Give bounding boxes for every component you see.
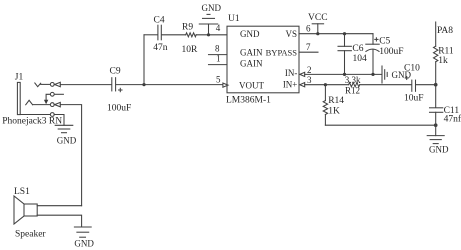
C5 plus sign — [375, 38, 378, 41]
wire R14 bottom to ground node — [325, 124, 435, 126]
node junction C6 bottom — [343, 73, 346, 76]
svg-text:1k: 1k — [438, 56, 448, 66]
wire R9 to pin 4 — [196, 34, 227, 36]
svg-text:3: 3 — [307, 75, 312, 85]
svg-text:VCC: VCC — [308, 13, 328, 23]
jack ring contact circle — [50, 92, 54, 96]
jack tip spring contact — [35, 83, 41, 87]
svg-text:PA8: PA8 — [437, 26, 453, 36]
svg-text:C9: C9 — [110, 66, 121, 76]
ground under jack — [55, 125, 73, 132]
resistor R11 — [434, 46, 438, 62]
svg-text:C10: C10 — [404, 64, 420, 74]
ground above pin 4 (inverted) — [199, 14, 217, 34]
svg-text:IN+: IN+ — [283, 80, 298, 90]
capacitor C5 plates — [366, 44, 379, 51]
jack tip contact circle — [50, 83, 54, 87]
svg-text:IN-: IN- — [285, 68, 298, 78]
wire C11 to ground — [435, 112, 437, 135]
resistor R12 — [349, 83, 360, 87]
svg-text:Phonejack3 RN: Phonejack3 RN — [2, 116, 62, 126]
capacitor C11 plates — [430, 108, 443, 113]
svg-text:R9: R9 — [182, 23, 193, 33]
svg-text:LS1: LS1 — [14, 187, 30, 197]
svg-text:100uF: 100uF — [379, 47, 403, 57]
svg-text:7: 7 — [306, 42, 311, 52]
jack tip open arrow — [55, 82, 61, 86]
wire sleeve to ground — [54, 115, 64, 126]
svg-text:2: 2 — [307, 65, 312, 75]
svg-text:10R: 10R — [182, 45, 199, 55]
wire C10 to node — [416, 84, 436, 86]
connector J1 body — [17, 82, 20, 114]
wire C6 bottom stem — [344, 51, 346, 75]
jack switch open arrow — [55, 102, 61, 106]
svg-text:R14: R14 — [328, 96, 344, 106]
pin 1 stub wire — [209, 64, 228, 66]
wire to C4 — [144, 34, 157, 36]
pin 8 stub wire — [209, 54, 228, 56]
svg-text:3.3k: 3.3k — [345, 75, 361, 85]
VCC power symbol — [312, 24, 323, 34]
svg-text:U1: U1 — [228, 14, 240, 24]
C9 plus sign — [119, 88, 122, 91]
wire IN- rail — [305, 73, 382, 75]
wire C5 bottom stem — [372, 49, 374, 74]
svg-text:VS: VS — [285, 29, 297, 39]
svg-text:8: 8 — [215, 43, 220, 53]
pin 2 input open arrow — [300, 72, 305, 76]
node junction at feedback tap — [142, 83, 145, 86]
jack sleeve contact circle — [50, 113, 54, 117]
svg-text:47n: 47n — [153, 43, 168, 53]
svg-text:LM386M-1: LM386M-1 — [226, 96, 271, 106]
wire R11 to node — [435, 62, 437, 108]
wire IN+ to R12 — [305, 84, 349, 86]
jack switch spring contact — [26, 100, 33, 105]
resistor R9 — [186, 33, 197, 37]
node junction R14 ground — [434, 123, 438, 127]
sideways ground on IN- rail — [382, 66, 387, 83]
loudspeaker LS1 — [14, 196, 37, 224]
svg-text:100uF: 100uF — [107, 104, 131, 114]
jack switch actuation arrow — [44, 100, 48, 105]
wire switch spring to circle — [33, 104, 51, 106]
resistor R14 — [323, 85, 327, 126]
svg-text:GND: GND — [74, 238, 94, 248]
pin 7 stub wire — [299, 51, 318, 53]
svg-text:4: 4 — [216, 23, 221, 33]
svg-text:VOUT: VOUT — [239, 81, 264, 91]
svg-text:6: 6 — [306, 23, 311, 33]
svg-text:10uF: 10uF — [404, 94, 424, 104]
C10 plus sign — [405, 77, 408, 80]
pin 5 output open arrow — [223, 83, 228, 87]
ground speaker — [74, 227, 91, 237]
svg-text:Speaker: Speaker — [15, 230, 46, 240]
svg-text:BYPASS: BYPASS — [266, 48, 298, 58]
svg-text:GAIN: GAIN — [240, 48, 263, 58]
node junction VCC — [316, 32, 319, 35]
pin 3 input open arrow — [300, 83, 305, 87]
svg-text:C5: C5 — [379, 37, 390, 47]
wire jack switch to speaker drop — [60, 105, 81, 206]
svg-text:5: 5 — [216, 75, 221, 85]
node junction PA8 net — [434, 83, 438, 87]
capacitor C9 plates — [112, 78, 116, 91]
svg-text:C4: C4 — [154, 15, 165, 25]
node junction under ground — [207, 33, 210, 36]
svg-text:GND: GND — [57, 135, 77, 145]
wire C5 top stem — [372, 34, 374, 45]
PA8 net stub wire — [435, 22, 437, 46]
svg-text:R12: R12 — [345, 86, 360, 96]
capacitor C6 plates — [338, 46, 351, 50]
jack ring contact L wire — [46, 94, 50, 100]
svg-text:1K: 1K — [328, 106, 340, 116]
svg-text:GND: GND — [240, 29, 260, 39]
capacitor C4 plates — [158, 25, 161, 40]
wire R12 to C10 — [360, 84, 411, 86]
svg-text:GND: GND — [202, 3, 222, 13]
wire C4 to R9 — [162, 34, 186, 36]
wire C6 top stem — [344, 34, 346, 47]
op-amp U1 body — [227, 26, 299, 93]
wire jack tip to C9 — [60, 84, 111, 86]
wire speaker plus — [37, 205, 81, 207]
wire feedback vertical — [143, 35, 145, 85]
wire C9 to VOUT — [116, 84, 223, 86]
svg-text:GND: GND — [429, 145, 449, 155]
wire jack sleeve — [20, 114, 50, 116]
node junction R14 top — [324, 83, 327, 86]
jack ring stub wire — [54, 93, 63, 95]
svg-text:GAIN: GAIN — [240, 59, 263, 69]
svg-text:R11: R11 — [438, 46, 454, 56]
svg-text:C6: C6 — [352, 44, 363, 54]
wire speaker minus to ground — [37, 215, 81, 227]
jack switch contact circle — [50, 103, 54, 107]
node junction C6 top — [343, 32, 346, 35]
svg-text:47nf: 47nf — [444, 113, 461, 124]
svg-text:J1: J1 — [15, 73, 24, 83]
svg-text:1: 1 — [216, 54, 221, 64]
ground right — [427, 136, 444, 144]
pin 6 wire to VCC rail — [299, 33, 373, 35]
node junction C5 bottom — [371, 73, 374, 76]
wire tip to contact circle — [41, 83, 51, 85]
capacitor C10 plates — [412, 80, 416, 91]
svg-text:104: 104 — [353, 54, 368, 64]
